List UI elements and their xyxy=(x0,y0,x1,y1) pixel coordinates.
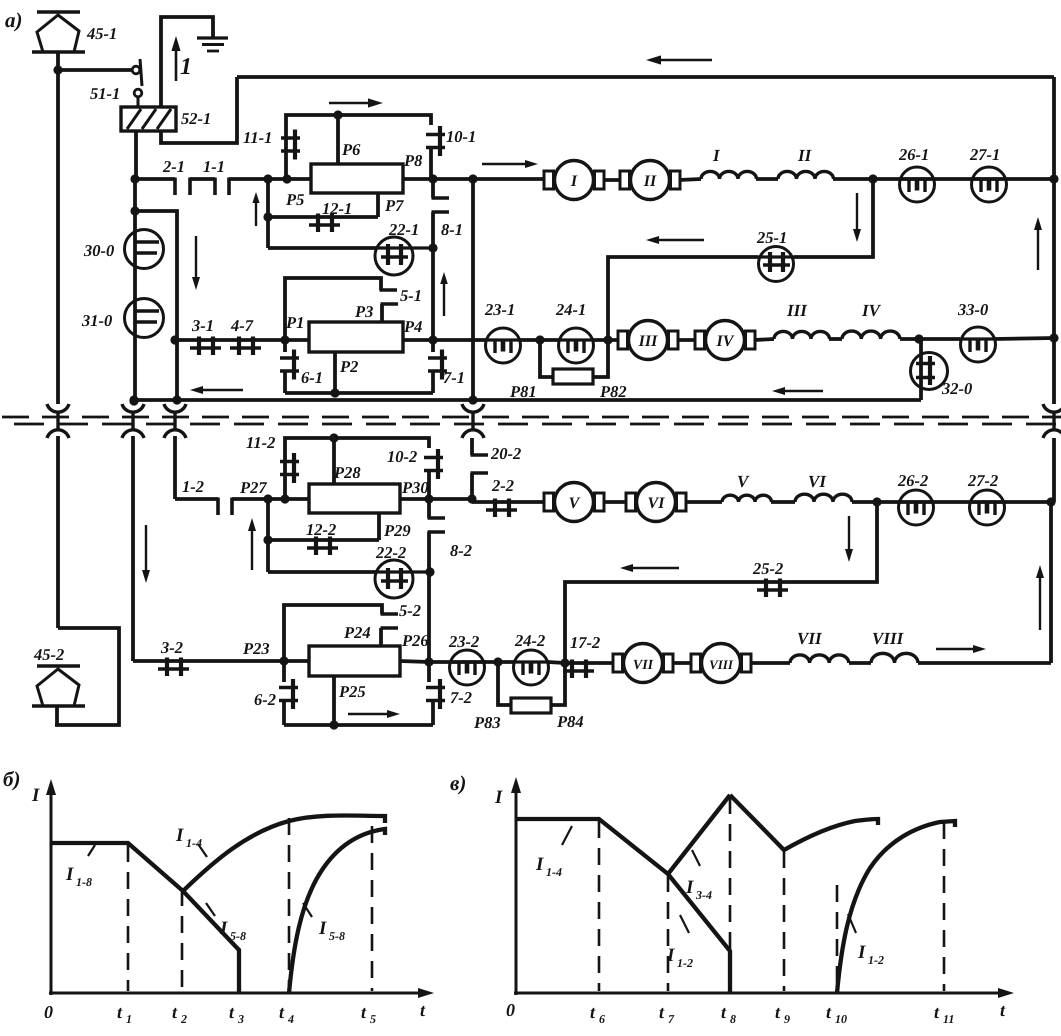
svg-text:24-2: 24-2 xyxy=(514,631,545,650)
svg-text:I: I xyxy=(494,787,503,808)
svg-text:VI: VI xyxy=(648,495,666,512)
wire xyxy=(268,246,377,250)
contactor 27-2 xyxy=(970,490,1005,525)
coupler xyxy=(1043,404,1061,438)
junction dot xyxy=(263,535,272,544)
wire xyxy=(603,500,627,504)
wire xyxy=(754,339,774,340)
svg-text:1-2: 1-2 xyxy=(182,477,204,496)
wire xyxy=(427,499,431,518)
arrow down xyxy=(142,525,150,583)
resistor 12-1 box xyxy=(311,164,403,193)
label 2-2 xyxy=(491,476,514,495)
arrow right xyxy=(348,710,400,718)
label 4-7 xyxy=(230,316,254,335)
label VII xyxy=(797,629,823,648)
svg-text:6-2: 6-2 xyxy=(254,690,276,709)
contactor 11-2 xyxy=(280,453,299,483)
wire xyxy=(268,215,378,219)
label P82 xyxy=(599,382,627,401)
wire xyxy=(427,532,431,662)
wire xyxy=(400,661,429,662)
label 17-2 xyxy=(570,633,600,652)
label 26-2 xyxy=(897,471,928,490)
svg-text:t: t xyxy=(279,1002,285,1022)
label t2 xyxy=(172,1002,187,1026)
svg-text:32-0: 32-0 xyxy=(941,379,972,398)
junction dot xyxy=(330,388,339,397)
wire P7 tap xyxy=(376,193,380,217)
svg-text:5-8: 5-8 xyxy=(329,929,345,943)
svg-text:V: V xyxy=(569,495,581,512)
svg-text:Р5: Р5 xyxy=(285,190,304,209)
arrow left xyxy=(646,55,712,64)
junction dot xyxy=(560,658,569,667)
arrow left xyxy=(620,564,679,572)
wire xyxy=(403,338,486,342)
junction dot xyxy=(282,174,291,183)
svg-text:t: t xyxy=(1000,1000,1006,1020)
label 7-2 xyxy=(450,688,472,707)
curve label I 3-4 xyxy=(685,850,712,902)
wire xyxy=(517,500,545,504)
wire xyxy=(771,500,795,504)
motor III xyxy=(618,321,678,360)
label VIII xyxy=(872,629,905,648)
motor I xyxy=(544,161,604,200)
label IV xyxy=(861,301,882,320)
wire xyxy=(593,340,608,377)
label P29 xyxy=(383,521,411,540)
wire xyxy=(56,52,60,404)
svg-text:а): а) xyxy=(5,8,23,32)
arrow left xyxy=(646,236,704,244)
label 12-1 xyxy=(322,199,352,218)
wire P6 tap xyxy=(336,115,340,164)
junction dot xyxy=(329,433,338,442)
svg-text:30-0: 30-0 xyxy=(83,241,114,260)
label 10-1 xyxy=(446,127,476,146)
svg-text:1-1: 1-1 xyxy=(203,157,225,176)
label P81 xyxy=(509,382,537,401)
label 2-1 xyxy=(162,157,185,176)
svg-text:8: 8 xyxy=(730,1012,736,1026)
wire xyxy=(429,497,472,501)
contactor 27-1 xyxy=(972,167,1007,202)
contactor 10-2 xyxy=(424,449,443,499)
svg-text:III: III xyxy=(638,333,658,350)
wire xyxy=(161,77,237,143)
junction dot xyxy=(467,494,476,503)
label a) xyxy=(5,8,23,32)
wire xyxy=(285,391,433,395)
contactor 22-2 xyxy=(375,560,429,598)
svg-text:I: I xyxy=(570,173,578,190)
label 3-1 xyxy=(191,316,214,335)
wire xyxy=(161,17,213,107)
svg-text:Р27: Р27 xyxy=(239,478,267,497)
svg-text:3-1: 3-1 xyxy=(191,316,214,335)
label P1 xyxy=(285,313,304,332)
wire xyxy=(829,337,842,341)
svg-text:Р28: Р28 xyxy=(333,463,361,482)
resistor P83-P84 xyxy=(511,698,551,713)
label 20-2 xyxy=(490,444,521,463)
svg-text:7-1: 7-1 xyxy=(443,368,465,387)
junction dot xyxy=(872,497,881,506)
svg-text:VIII: VIII xyxy=(872,629,905,648)
wire xyxy=(268,570,376,574)
label 1-1 xyxy=(203,157,225,176)
svg-text:2: 2 xyxy=(180,1012,187,1026)
junction dot xyxy=(129,395,138,404)
svg-text:6: 6 xyxy=(599,1012,605,1026)
wire xyxy=(672,661,692,665)
label t4 xyxy=(279,1002,294,1026)
label 33-0 xyxy=(957,300,988,319)
label III xyxy=(786,301,808,320)
label v) xyxy=(450,771,466,795)
wire xyxy=(685,500,722,504)
resistor P23-P26 box xyxy=(309,646,400,676)
label P27 xyxy=(239,478,267,497)
wire P28 tap xyxy=(332,438,336,484)
contactor 2-1 xyxy=(175,178,215,196)
curve label I 5-8 b xyxy=(303,903,345,943)
svg-text:t: t xyxy=(229,1002,235,1022)
wire P29 tap xyxy=(377,513,381,540)
label P25 xyxy=(338,682,366,701)
svg-text:22-1: 22-1 xyxy=(388,220,419,239)
label 3-2 xyxy=(160,638,183,657)
svg-text:II: II xyxy=(643,173,657,190)
arrow down xyxy=(192,236,200,290)
contactor 25-1 xyxy=(758,247,794,282)
junction dot xyxy=(468,174,477,183)
wire xyxy=(603,178,620,182)
label P3 xyxy=(354,302,373,321)
label 1-2 xyxy=(182,477,204,496)
wire xyxy=(995,338,1054,339)
svg-text:t: t xyxy=(172,1002,178,1022)
contactor 7-1 xyxy=(428,340,447,393)
wire xyxy=(135,211,177,340)
label 26-1 xyxy=(898,145,929,164)
junction dot xyxy=(428,243,437,252)
label II xyxy=(797,146,813,165)
breaker 31-0 xyxy=(125,299,164,338)
svg-text:VII: VII xyxy=(797,629,823,648)
label 1 xyxy=(180,54,192,80)
svg-text:I: I xyxy=(535,854,544,875)
wire xyxy=(484,660,514,664)
label 0 xyxy=(44,1002,53,1022)
svg-text:Р1: Р1 xyxy=(285,313,304,332)
junction dot xyxy=(868,174,877,183)
dashed separator line xyxy=(2,416,1061,419)
svg-text:I: I xyxy=(857,942,866,963)
label P7 xyxy=(384,196,404,215)
label 45-2 xyxy=(33,645,64,664)
wire xyxy=(431,179,435,198)
breaker 30-0 xyxy=(125,230,164,269)
junction dot xyxy=(130,206,139,215)
coupler xyxy=(122,404,144,438)
label 12-2 xyxy=(306,520,336,539)
svg-text:10: 10 xyxy=(835,1012,847,1026)
ground xyxy=(197,38,228,51)
wire xyxy=(473,177,545,181)
motor VIII xyxy=(691,644,751,683)
label 10-2 xyxy=(387,447,417,466)
junction dot xyxy=(129,396,138,405)
right bus wire xyxy=(1052,77,1056,404)
svg-text:Р6: Р6 xyxy=(341,140,361,159)
label t8 xyxy=(721,1002,736,1026)
svg-text:0: 0 xyxy=(44,1002,53,1022)
graph b axes and curves xyxy=(46,779,434,998)
motor IV xyxy=(695,321,755,360)
pantograph 45-2 xyxy=(32,666,85,706)
wire xyxy=(232,497,309,501)
arrow left xyxy=(190,386,243,394)
svg-text:52-1: 52-1 xyxy=(181,109,211,128)
svg-text:25-2: 25-2 xyxy=(752,559,783,578)
arrow up xyxy=(1034,217,1042,270)
label 45-1 xyxy=(86,24,117,43)
label t6 xyxy=(590,1002,605,1026)
svg-text:Р7: Р7 xyxy=(384,196,404,215)
sub top wire xyxy=(284,605,382,661)
wire xyxy=(565,582,758,663)
junction dot xyxy=(1049,333,1058,342)
contactor 24-1 xyxy=(559,328,594,363)
svg-text:I: I xyxy=(318,918,327,939)
label t9 xyxy=(775,1002,790,1026)
junction dot xyxy=(280,494,289,503)
contactor 32-0 xyxy=(911,339,948,400)
label P4 xyxy=(403,317,422,336)
svg-text:t: t xyxy=(826,1002,832,1022)
label P8 xyxy=(403,151,422,170)
svg-text:Р83: Р83 xyxy=(473,713,501,732)
contactor 4-7 xyxy=(221,337,261,356)
arrow up xyxy=(248,518,256,570)
svg-text:Р3: Р3 xyxy=(354,302,373,321)
wire xyxy=(520,338,559,342)
label 0 xyxy=(506,1000,515,1020)
svg-text:t: t xyxy=(721,1002,727,1022)
svg-text:12-2: 12-2 xyxy=(306,520,336,539)
wire xyxy=(471,179,475,340)
junction dot xyxy=(424,657,433,666)
label t7 xyxy=(659,1002,675,1026)
svg-text:Р25: Р25 xyxy=(338,682,366,701)
top bus wire xyxy=(237,75,1054,79)
svg-text:24-1: 24-1 xyxy=(555,300,586,319)
curve label I 1-4 xyxy=(175,825,207,857)
contactor 6-1 xyxy=(280,340,299,393)
junction dot xyxy=(279,656,288,665)
motor VII xyxy=(613,644,673,683)
junction dot xyxy=(263,174,272,183)
label P6 xyxy=(341,140,361,159)
label 25-1 xyxy=(756,228,787,247)
svg-text:26-1: 26-1 xyxy=(898,145,929,164)
motor II xyxy=(620,161,680,200)
svg-text:IV: IV xyxy=(861,301,882,320)
junction dot xyxy=(53,65,62,74)
label 11-2 xyxy=(246,433,275,452)
coupler xyxy=(47,404,69,438)
svg-text:8-1: 8-1 xyxy=(441,220,463,239)
curve label I 1-2 b xyxy=(848,914,884,967)
svg-text:t: t xyxy=(420,1000,426,1020)
motor V xyxy=(544,483,604,522)
junction dot xyxy=(263,494,272,503)
wire xyxy=(593,661,614,665)
svg-text:VIII: VIII xyxy=(709,657,734,672)
junction dot xyxy=(428,174,437,183)
label P84 xyxy=(556,712,584,731)
label 25-2 xyxy=(752,559,783,578)
svg-text:8-2: 8-2 xyxy=(450,541,472,560)
svg-text:25-1: 25-1 xyxy=(756,228,787,247)
label P28 xyxy=(333,463,361,482)
inductor V xyxy=(722,495,772,502)
label P5 xyxy=(285,190,304,209)
junction dot xyxy=(535,335,544,344)
wire xyxy=(133,179,137,400)
contactor 11-1 xyxy=(281,130,300,160)
label I xyxy=(712,146,721,165)
svg-text:7-2: 7-2 xyxy=(450,688,472,707)
curve label I 1-2 a xyxy=(666,915,693,970)
svg-text:I: I xyxy=(666,945,675,966)
contactor 2-2 xyxy=(472,499,517,518)
wire xyxy=(135,177,175,181)
label I axis xyxy=(31,785,40,806)
wire xyxy=(268,177,311,181)
junction dot xyxy=(1046,497,1055,506)
arrow up xyxy=(440,272,448,316)
contactor 20-2 xyxy=(471,438,489,499)
resistor P1-P4 box xyxy=(309,322,403,352)
svg-text:27-2: 27-2 xyxy=(967,471,998,490)
junction dot xyxy=(424,494,433,503)
label I axis xyxy=(494,787,503,808)
svg-text:27-1: 27-1 xyxy=(969,145,1000,164)
inductor I xyxy=(701,171,757,179)
wire xyxy=(175,497,218,501)
svg-text:11-2: 11-2 xyxy=(246,433,275,452)
wire P2 tap xyxy=(333,352,337,393)
label 23-1 xyxy=(484,300,515,319)
wire xyxy=(173,436,177,499)
arrow up xyxy=(171,36,180,81)
svg-text:1: 1 xyxy=(126,1012,132,1026)
svg-text:III: III xyxy=(786,301,808,320)
label 8-2 xyxy=(450,541,472,560)
svg-text:I: I xyxy=(685,877,694,898)
wire xyxy=(608,257,758,340)
label t axis xyxy=(420,1000,426,1020)
svg-text:IV: IV xyxy=(716,333,735,350)
wire xyxy=(56,436,60,628)
arrow down xyxy=(845,516,853,562)
coupler xyxy=(462,404,484,438)
contactor 6-2 xyxy=(279,661,298,725)
contactor 22-1 xyxy=(375,237,433,275)
wire xyxy=(266,179,270,248)
wire xyxy=(852,500,877,504)
sub top wire xyxy=(285,278,381,340)
contactor 26-2 xyxy=(899,490,934,525)
svg-text:Р4: Р4 xyxy=(403,317,422,336)
svg-text:6-1: 6-1 xyxy=(301,368,323,387)
svg-text:1-8: 1-8 xyxy=(76,875,92,889)
svg-text:5: 5 xyxy=(370,1012,376,1026)
wire xyxy=(266,499,270,572)
svg-text:4: 4 xyxy=(287,1012,294,1026)
label 8-1 xyxy=(441,220,463,239)
svg-text:t: t xyxy=(659,1002,665,1022)
arrow down xyxy=(853,193,861,242)
svg-text:I: I xyxy=(65,864,74,885)
svg-text:Р30: Р30 xyxy=(401,478,429,497)
wire xyxy=(679,179,701,180)
contactor 33-0 xyxy=(961,327,996,362)
svg-text:7: 7 xyxy=(668,1012,675,1026)
junction dot xyxy=(914,334,923,343)
resistor P81-P82 xyxy=(553,369,593,384)
contactor 5-2 xyxy=(381,614,399,646)
arrow right xyxy=(329,98,383,107)
inductor VIII xyxy=(871,653,918,663)
inductor VII xyxy=(790,655,849,663)
wire xyxy=(593,338,619,342)
svg-text:31-0: 31-0 xyxy=(81,311,112,330)
label t axis xyxy=(1000,1000,1006,1020)
svg-text:5-1: 5-1 xyxy=(400,286,422,305)
contactor 26-1 xyxy=(900,167,935,202)
curve label I 1-8 xyxy=(65,845,95,889)
junction dot xyxy=(130,174,139,183)
wire xyxy=(133,659,160,663)
label t10 xyxy=(826,1002,847,1026)
svg-text:1: 1 xyxy=(180,54,192,80)
label b) xyxy=(3,767,20,791)
junction dot xyxy=(172,395,181,404)
sub top wire xyxy=(285,438,429,499)
svg-text:I: I xyxy=(219,918,228,939)
label t1 xyxy=(117,1002,132,1026)
wire xyxy=(429,660,486,664)
wire xyxy=(794,179,873,257)
svg-text:Р84: Р84 xyxy=(556,712,584,731)
svg-text:23-2: 23-2 xyxy=(448,632,479,651)
wire xyxy=(551,663,565,705)
wire xyxy=(1049,502,1053,663)
junction dot xyxy=(170,335,179,344)
label 11-1 xyxy=(243,128,272,147)
wire xyxy=(261,338,309,342)
svg-text:0: 0 xyxy=(506,1000,515,1020)
svg-text:Р8: Р8 xyxy=(403,151,422,170)
label 22-2 xyxy=(375,543,406,562)
contactor 3-1 xyxy=(190,337,221,356)
svg-text:I: I xyxy=(175,825,184,846)
